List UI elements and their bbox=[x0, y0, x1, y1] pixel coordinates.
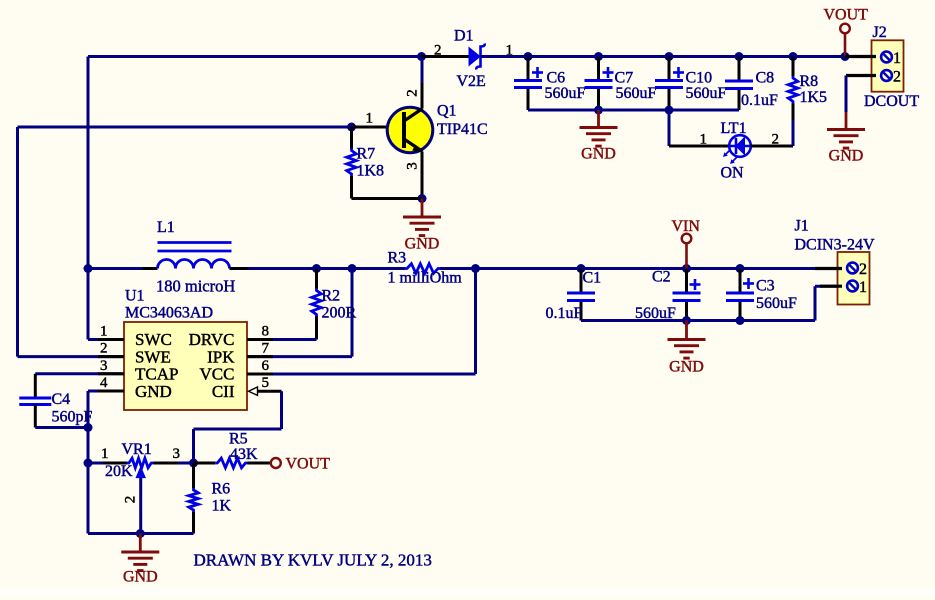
wire: left vertical to L1 rail bbox=[87, 57, 90, 269]
svg-text:VOUT: VOUT bbox=[824, 7, 869, 24]
node: C3 top bbox=[736, 264, 745, 273]
svg-text:20K: 20K bbox=[105, 463, 133, 480]
svg-text:0.1uF: 0.1uF bbox=[741, 92, 778, 109]
svg-text:C7: C7 bbox=[615, 70, 634, 87]
svg-text:J2: J2 bbox=[873, 24, 887, 41]
J2 pin 1 bbox=[845, 55, 876, 58]
svg-text:GND: GND bbox=[135, 382, 172, 401]
LED emission arrows bbox=[725, 150, 731, 156]
svg-text:GND: GND bbox=[829, 148, 864, 165]
svg-text:3: 3 bbox=[173, 446, 181, 462]
L1 core bars bbox=[158, 241, 232, 244]
svg-text:1: 1 bbox=[893, 50, 901, 67]
wire: base rail horizontal bbox=[18, 126, 352, 129]
ground symbol under Q1 bbox=[421, 199, 424, 217]
svg-text:L1: L1 bbox=[157, 219, 175, 236]
svg-text:7: 7 bbox=[262, 341, 270, 357]
svg-text:GND: GND bbox=[123, 569, 158, 586]
ground symbol under J2 bbox=[845, 112, 848, 129]
svg-text:1K5: 1K5 bbox=[800, 89, 828, 106]
potentiometer VR1 20K bbox=[88, 462, 127, 465]
svg-text:43K: 43K bbox=[230, 446, 258, 463]
svg-text:DRAWN BY KVLV JULY 2, 2013: DRAWN BY KVLV JULY 2, 2013 bbox=[194, 551, 432, 570]
svg-text:2: 2 bbox=[893, 69, 901, 86]
svg-text:4: 4 bbox=[100, 375, 108, 391]
op-amp U1 MC34063AD body bbox=[124, 322, 247, 410]
svg-text:1K: 1K bbox=[212, 498, 232, 515]
power port VOUT feedback bbox=[271, 458, 281, 468]
capacitor C10 560uF bbox=[668, 57, 671, 81]
wire: LED pin2 to R8 bottom bbox=[751, 145, 794, 148]
svg-text:3: 3 bbox=[100, 358, 108, 374]
svg-text:2: 2 bbox=[434, 43, 442, 59]
svg-text:2: 2 bbox=[123, 496, 139, 504]
svg-text:C2: C2 bbox=[652, 269, 671, 286]
svg-text:TCAP: TCAP bbox=[135, 365, 178, 384]
U1 pin 5 CII bbox=[249, 387, 258, 395]
svg-text:2: 2 bbox=[100, 341, 108, 357]
svg-text:C1: C1 bbox=[583, 270, 602, 287]
J2 pin 2 bbox=[846, 74, 876, 77]
wire: R3 to input rail and J1 pin2 bbox=[440, 267, 847, 270]
capacitor C8 0.1uF bbox=[738, 57, 741, 82]
node: R8 top bbox=[789, 52, 798, 61]
node: C2/VIN junction bbox=[682, 264, 691, 273]
node: C4/GND junction bbox=[84, 423, 93, 432]
inductor L1 180 microH bbox=[158, 260, 230, 269]
capacitor C2 560uF bbox=[685, 269, 688, 294]
svg-text:C3: C3 bbox=[756, 278, 775, 295]
U1 pin 6 VCC bbox=[247, 373, 273, 376]
wire: to J1 pin 1 bbox=[740, 319, 815, 322]
node: GND tap under C7 bbox=[594, 106, 603, 115]
wire: L1 to R3 bbox=[230, 267, 406, 270]
wire: VR1 wiper to bottom rail bbox=[139, 478, 142, 534]
connector J1 DCIN3-24V bbox=[838, 252, 870, 305]
wire: Q1 emitter pin bbox=[421, 152, 424, 199]
U1 pin 8 DRVC bbox=[247, 338, 273, 341]
node: feedback junction bbox=[189, 459, 198, 468]
svg-text:IPK: IPK bbox=[207, 347, 235, 366]
wire: Q1 base pin bbox=[352, 126, 389, 129]
wire: GND net vertical bbox=[87, 391, 90, 534]
svg-text:VCC: VCC bbox=[200, 365, 235, 384]
ground symbol bottom left bbox=[139, 534, 142, 552]
svg-text:LT1: LT1 bbox=[721, 120, 747, 137]
svg-text:1K8: 1K8 bbox=[357, 163, 385, 180]
svg-text:VR1: VR1 bbox=[122, 441, 152, 458]
node: Q1 base / R7 junction bbox=[347, 123, 356, 132]
node: top rail / Q1 collector junction bbox=[417, 52, 426, 61]
svg-text:560pF: 560pF bbox=[52, 409, 93, 426]
wire: LED branch bbox=[668, 110, 671, 146]
svg-text:5: 5 bbox=[262, 375, 270, 391]
resistor R7 1K8 bbox=[350, 127, 353, 149]
connector J2 DCOUT bbox=[872, 40, 904, 91]
svg-text:GND: GND bbox=[405, 236, 440, 253]
node: L1 rail left junction bbox=[84, 264, 93, 273]
wire: output rail D1 to J2 bbox=[480, 55, 875, 58]
svg-text:560uF: 560uF bbox=[686, 85, 727, 102]
svg-text:GND: GND bbox=[669, 359, 704, 376]
LED LT1 bbox=[729, 135, 751, 157]
wire: VCC pin 6 to rail after R3 bbox=[474, 269, 477, 375]
node: C8 top bbox=[735, 52, 744, 61]
svg-text:U1: U1 bbox=[125, 288, 145, 305]
node: LED branch tap bbox=[665, 106, 674, 115]
svg-text:J1: J1 bbox=[795, 218, 809, 235]
node: VOUT stem junction bbox=[841, 52, 850, 61]
wire: IPK pin 7 to rail bbox=[351, 269, 354, 357]
svg-text:CII: CII bbox=[212, 382, 235, 401]
svg-text:C6: C6 bbox=[547, 70, 566, 87]
wire: input cap bottom rail bbox=[581, 319, 740, 322]
node: VCC tap bbox=[471, 264, 480, 273]
U1 pin 1 SWC bbox=[87, 269, 90, 340]
wire: C4 bottom to GND net bbox=[35, 426, 88, 429]
node: C3 bottom junction bbox=[736, 316, 745, 325]
node: C10 top bbox=[665, 52, 674, 61]
power port VIN bbox=[682, 234, 692, 244]
wire: capacitor bottom rail bbox=[528, 109, 739, 112]
svg-text:ON: ON bbox=[721, 165, 745, 182]
capacitor C6 560uF bbox=[527, 57, 530, 81]
svg-text:Q1: Q1 bbox=[437, 103, 457, 120]
svg-text:R6: R6 bbox=[212, 481, 231, 498]
wire: left vertical to SWE bbox=[16, 127, 19, 357]
J1 pin 2 bbox=[815, 267, 842, 270]
svg-text:1: 1 bbox=[101, 446, 109, 462]
wire: Q1 collector to top rail bbox=[421, 57, 424, 84]
U1 pin 2 SWE bbox=[18, 355, 125, 358]
svg-text:1: 1 bbox=[859, 279, 867, 296]
svg-text:C10: C10 bbox=[686, 70, 713, 87]
svg-text:GND: GND bbox=[581, 146, 616, 163]
svg-text:1 milliOhm: 1 milliOhm bbox=[388, 270, 463, 287]
capacitor C1 0.1uF bbox=[580, 269, 583, 294]
capacitor C3 560uF bbox=[739, 269, 742, 294]
svg-text:VOUT: VOUT bbox=[286, 456, 331, 473]
wire: R7 bottom to emitter junction bbox=[352, 197, 423, 200]
U1 pin 3 TCAP bbox=[35, 372, 124, 375]
svg-text:560uF: 560uF bbox=[756, 295, 797, 312]
node: C7 top bbox=[594, 52, 603, 61]
svg-text:8: 8 bbox=[262, 324, 270, 340]
resistor R6 1K bbox=[192, 463, 195, 488]
node: C1 top bbox=[577, 264, 586, 273]
ground symbol under C7 bbox=[597, 110, 600, 127]
node: emitter/R7 ground junction bbox=[418, 194, 427, 203]
svg-text:560uF: 560uF bbox=[545, 85, 586, 102]
node: IPK tap bbox=[348, 264, 357, 273]
ground symbol under C2 bbox=[685, 321, 688, 340]
svg-text:SWE: SWE bbox=[135, 347, 171, 366]
svg-text:R3: R3 bbox=[388, 250, 407, 267]
svg-text:2: 2 bbox=[859, 261, 867, 278]
svg-text:560uF: 560uF bbox=[616, 85, 657, 102]
wire: J2 pin2 to ground bbox=[845, 76, 848, 113]
svg-text:D1: D1 bbox=[454, 28, 474, 45]
resistor R5 43K bbox=[194, 462, 216, 465]
wire: rail to L1 bbox=[88, 267, 158, 270]
svg-text:R2: R2 bbox=[322, 288, 341, 305]
node: R2 tap bbox=[312, 264, 321, 273]
J1 pin 1 bbox=[820, 285, 842, 288]
resistor R8 1K5 bbox=[792, 57, 795, 77]
svg-text:DCOUT: DCOUT bbox=[864, 93, 919, 110]
svg-text:1: 1 bbox=[366, 111, 374, 127]
svg-text:0.1uF: 0.1uF bbox=[546, 305, 583, 322]
transistor Q1 TIP41C bbox=[387, 107, 433, 153]
svg-text:180 microH: 180 microH bbox=[156, 277, 235, 296]
svg-text:DCIN3-24V: DCIN3-24V bbox=[795, 237, 875, 254]
svg-text:3: 3 bbox=[405, 162, 421, 170]
svg-text:1: 1 bbox=[100, 324, 108, 340]
wire: Q1 collector pin bbox=[421, 83, 424, 109]
power port VOUT top bbox=[840, 24, 850, 34]
svg-text:6: 6 bbox=[262, 358, 270, 374]
node: bottom GND junction bbox=[136, 529, 145, 538]
resistor R3 1 milliOhm bbox=[405, 264, 440, 274]
svg-text:1: 1 bbox=[700, 132, 708, 148]
svg-text:VIN: VIN bbox=[672, 218, 701, 235]
wire: R2 bottom to DRVC pin 8 bbox=[247, 338, 317, 341]
node: C6 top bbox=[524, 52, 533, 61]
svg-text:R8: R8 bbox=[800, 73, 819, 90]
svg-text:R7: R7 bbox=[357, 146, 376, 163]
node: input GND junction bbox=[682, 316, 691, 325]
svg-text:MC34063AD: MC34063AD bbox=[125, 305, 213, 322]
capacitor C7 560uF bbox=[597, 57, 600, 81]
svg-text:C8: C8 bbox=[756, 70, 775, 87]
capacitor C4 560pF bbox=[34, 374, 37, 398]
wire: CII pin 5 to feedback node bbox=[280, 391, 283, 429]
resistor R2 200R bbox=[315, 269, 318, 289]
svg-text:2: 2 bbox=[405, 89, 421, 97]
diode D1 V2E bbox=[422, 55, 470, 58]
svg-text:R5: R5 bbox=[229, 431, 248, 448]
wire: top rail left segment bbox=[88, 55, 422, 58]
wire: bottom ground rail bbox=[88, 532, 194, 535]
node: VR1 pin1 junction bbox=[84, 459, 93, 468]
U1 pin 4 GND bbox=[88, 390, 124, 393]
svg-text:V2E: V2E bbox=[457, 73, 486, 90]
svg-text:C4: C4 bbox=[52, 391, 71, 408]
wire: VR1 pin3 to feedback node bbox=[153, 462, 193, 465]
svg-text:TIP41C: TIP41C bbox=[437, 121, 488, 138]
U1 pin 7 IPK bbox=[247, 355, 273, 358]
